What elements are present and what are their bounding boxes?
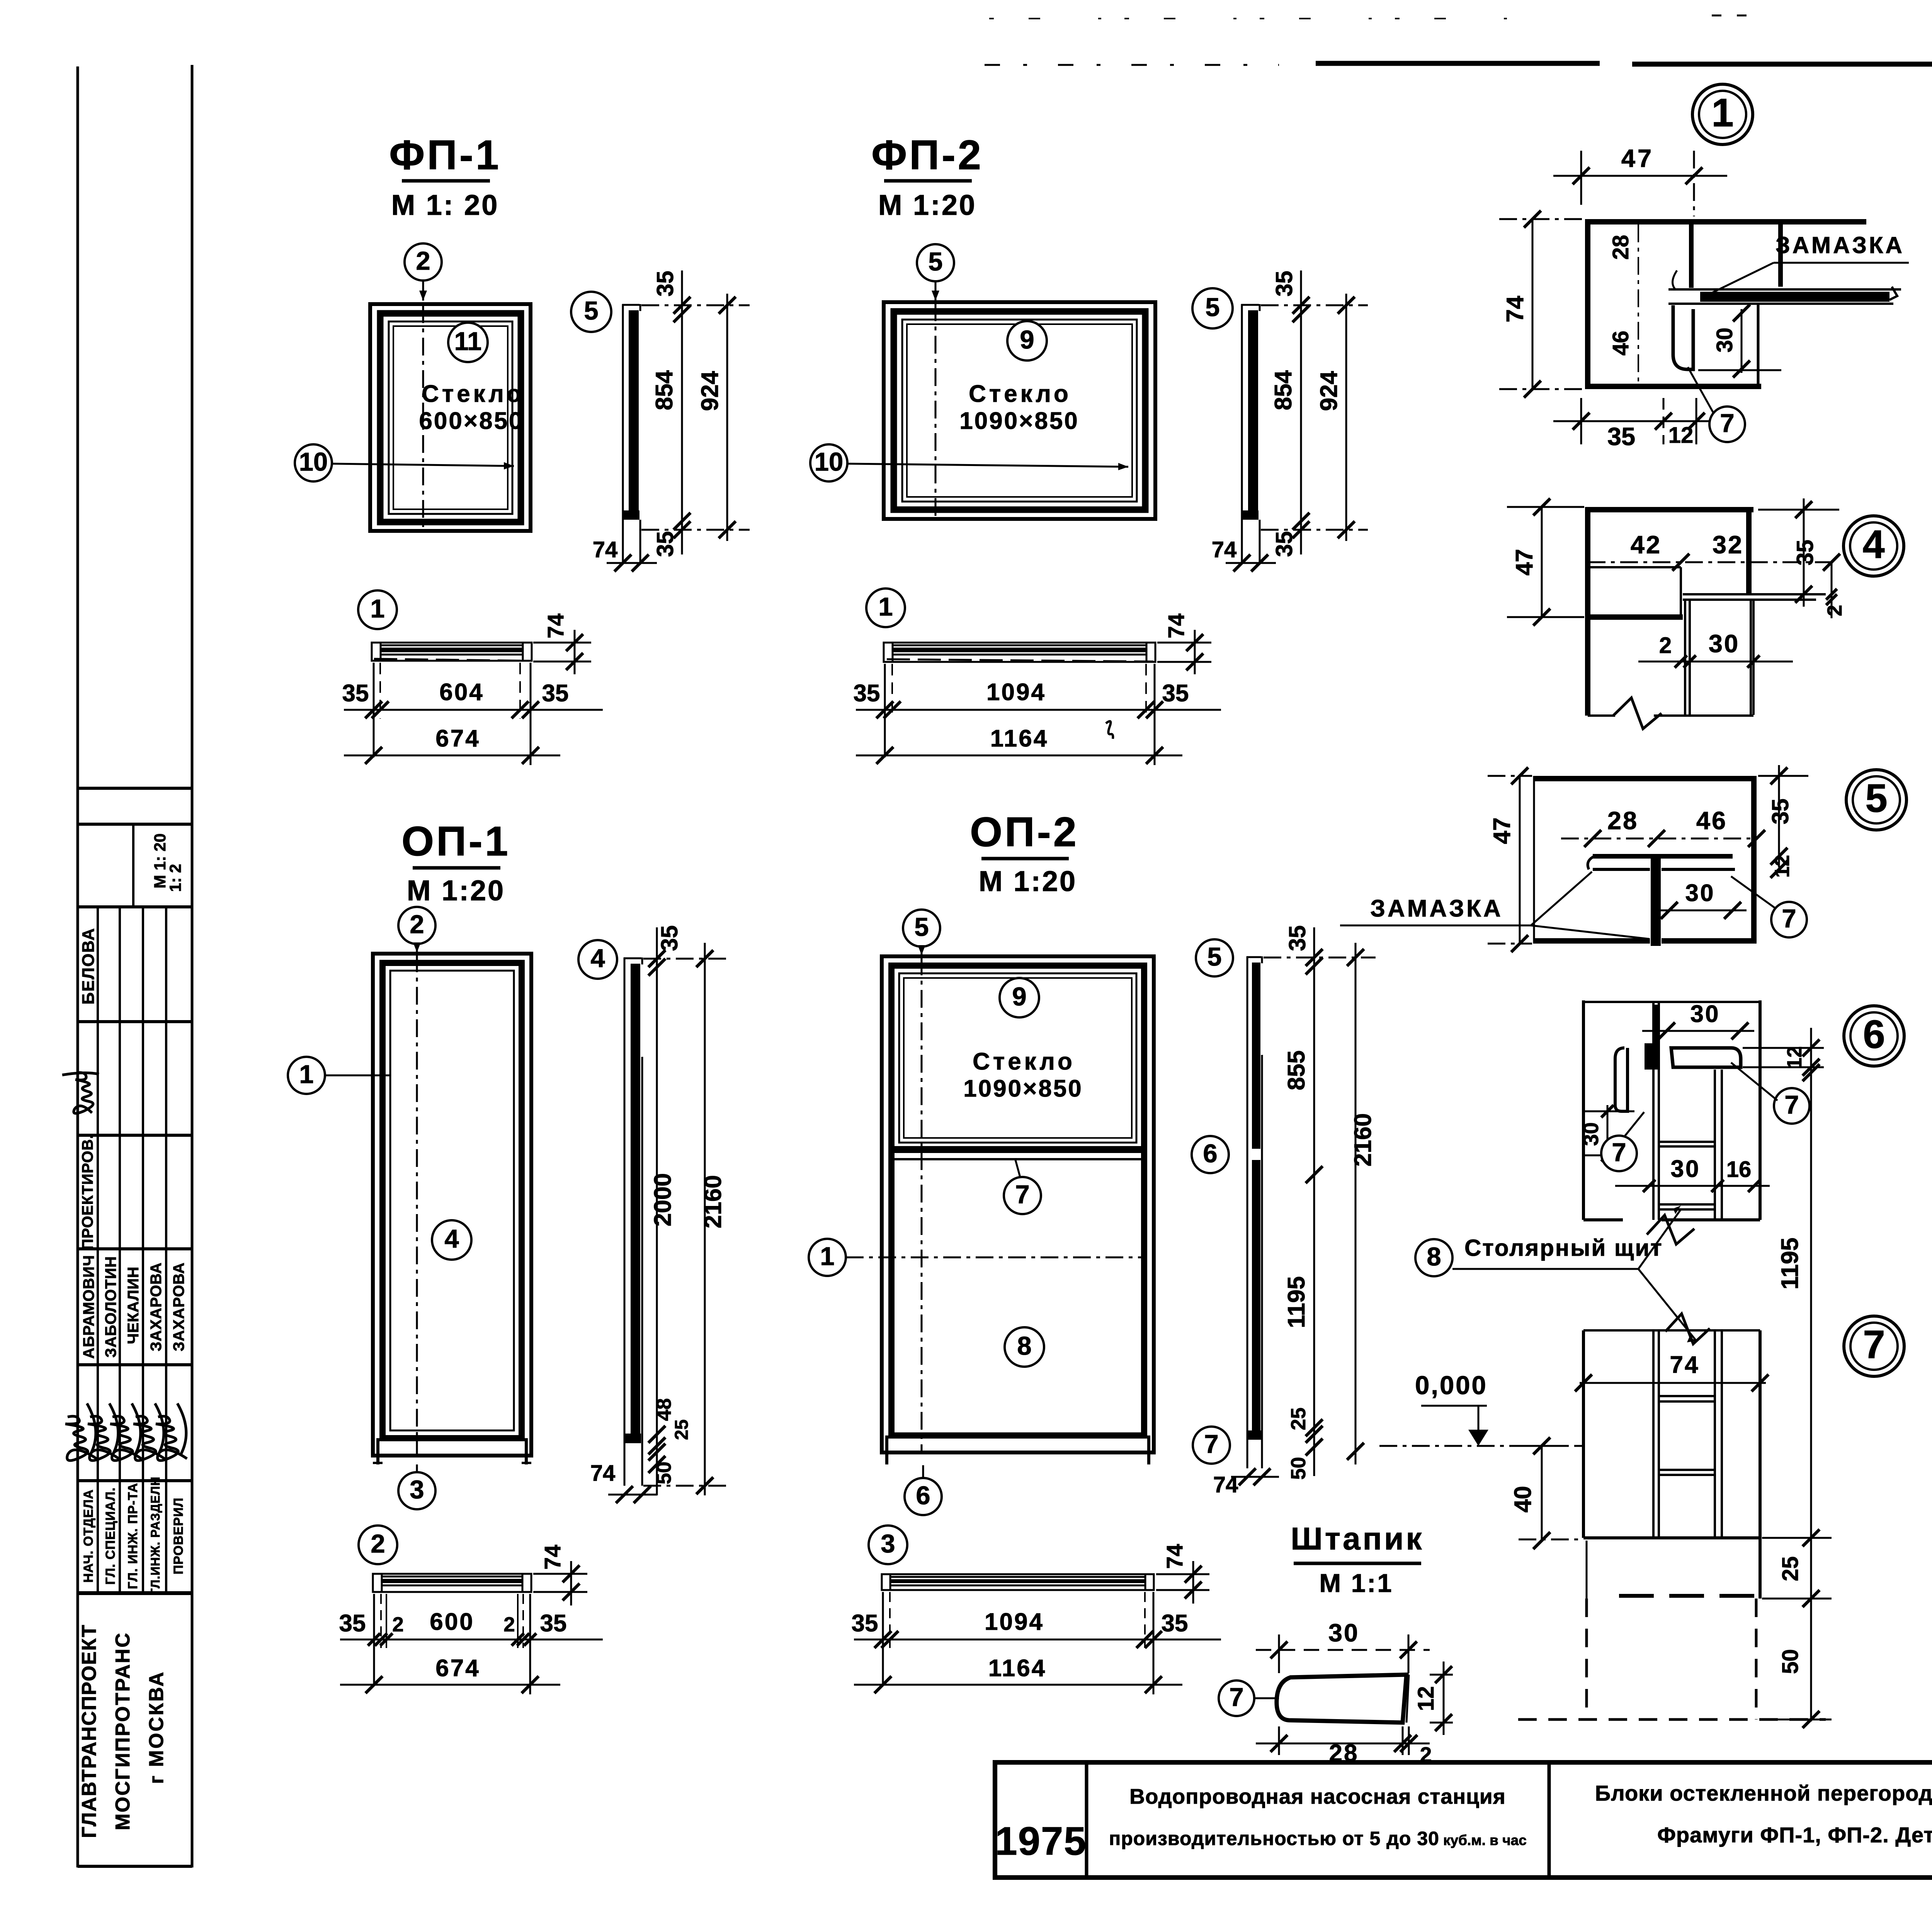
svg-text:1: 1 (820, 1242, 834, 1271)
OP-2 callout circle 6 bottom (905, 1478, 942, 1515)
FP-1 frame glass rebate rects (389, 321, 512, 514)
detail 5 dim 12 right (1770, 861, 1787, 878)
svg-text:9: 9 (1020, 325, 1034, 354)
svg-text:1195: 1195 (1777, 1238, 1803, 1290)
svg-text:1: 1 (878, 592, 893, 621)
stolyarny shchit leaders (1638, 1209, 1681, 1269)
sheet left border inner line (77, 66, 79, 1867)
svg-text:32: 32 (1713, 531, 1743, 559)
detail 6 break mark bottom (1647, 1215, 1694, 1244)
svg-text:6: 6 (1863, 1012, 1885, 1056)
svg-text:16: 16 (1726, 1157, 1752, 1182)
svg-text:1094: 1094 (985, 1609, 1044, 1635)
detail 6 dim 30 top (1642, 1030, 1754, 1032)
svg-text:74: 74 (1212, 537, 1237, 562)
OP-1 side dim 2160 (704, 943, 706, 1495)
svg-text:74: 74 (1502, 296, 1529, 322)
detail circle 4 (1844, 516, 1904, 576)
svg-text:ЗАБОЛОТИН: ЗАБОЛОТИН (102, 1256, 119, 1357)
svg-text:30: 30 (1690, 1001, 1720, 1027)
OP-1 plan bar (373, 1574, 531, 1592)
detail 5 dim 30 (1661, 910, 1747, 912)
detail 1 dim 35 12 bottom (1553, 420, 1719, 422)
svg-text:7: 7 (1863, 1322, 1885, 1367)
OP-1 side view strip (624, 957, 626, 1486)
svg-text:600×850: 600×850 (419, 408, 524, 434)
detail 6 crossbars (1659, 1141, 1715, 1143)
svg-text:74: 74 (540, 1545, 565, 1570)
svg-text:5: 5 (1205, 293, 1219, 322)
FP-1 plan dim 674 (344, 755, 560, 757)
OP-1 callout circle 2 top (398, 907, 435, 944)
svg-text:35: 35 (1792, 540, 1818, 566)
detail 1 glass bar (1668, 288, 1901, 291)
OP-1 frame sash rect (383, 963, 522, 1438)
OP-1 plan section circle 2 (359, 1526, 397, 1564)
OP-2 side circle 5 (1196, 939, 1233, 976)
detail 5 dim 28 46 (1561, 838, 1757, 840)
svg-text:854: 854 (651, 370, 678, 410)
svg-text:10: 10 (815, 447, 844, 476)
svg-text:28: 28 (1608, 235, 1633, 260)
detail 4 glass lines (1683, 593, 1826, 595)
svg-text:г МОСКВА: г МОСКВА (145, 1670, 168, 1784)
svg-text:4: 4 (590, 944, 605, 973)
svg-text:30: 30 (1328, 1619, 1359, 1647)
svg-text:8: 8 (1017, 1332, 1031, 1361)
svg-text:1164: 1164 (990, 725, 1049, 752)
svg-text:9: 9 (1012, 982, 1026, 1011)
detail 6 inner double verticals (1652, 1070, 1655, 1220)
svg-text:2000: 2000 (650, 1173, 676, 1226)
FP-1 plan section circle 1 (358, 590, 397, 629)
svg-text:25: 25 (672, 1419, 692, 1440)
stolyarny shchit label circle 8 (1415, 1239, 1452, 1276)
detail 6 dim 30 left (1607, 1105, 1609, 1159)
svg-text:5: 5 (928, 247, 942, 276)
svg-text:35: 35 (542, 680, 569, 707)
svg-text:ФП-2: ФП-2 (871, 131, 983, 178)
svg-text:Столярный щит: Столярный щит (1464, 1235, 1663, 1261)
OP-2 frame bottom feet (885, 1435, 888, 1464)
svg-text:1: 1 (299, 1060, 313, 1089)
svg-text:2160: 2160 (700, 1175, 726, 1228)
svg-text:30: 30 (1712, 328, 1737, 353)
stamp table horizontal lines (78, 787, 192, 790)
svg-text:ПРОВЕРИЛ: ПРОВЕРИЛ (171, 1497, 186, 1574)
svg-text:28: 28 (1607, 806, 1638, 835)
svg-text:74: 74 (590, 1461, 616, 1486)
FP-2 callout circle 10 left (810, 444, 847, 481)
detail 1 shtapik strip (1673, 305, 1693, 369)
svg-text:8: 8 (1427, 1242, 1441, 1271)
svg-text:1090×850: 1090×850 (963, 1075, 1083, 1102)
detail 5 shtapik strip hatched (1651, 859, 1661, 946)
svg-text:Штапик: Штапик (1291, 1521, 1424, 1556)
FP-1 callout circle 10 left (295, 444, 332, 481)
OP-2 glass rebate rects top panel (899, 973, 1136, 1143)
svg-text:7: 7 (1204, 1430, 1218, 1459)
svg-text:30: 30 (1579, 1122, 1603, 1146)
FP-1 plan bar (372, 643, 532, 661)
detail 1 dim 30 (1741, 309, 1743, 373)
svg-text:74: 74 (1670, 1352, 1700, 1378)
OP-1 door leaf circle 4 (432, 1220, 471, 1260)
svg-text:35: 35 (852, 1610, 878, 1637)
svg-text:5: 5 (914, 913, 929, 942)
svg-text:НАЧ. ОТДЕЛА: НАЧ. ОТДЕЛА (81, 1489, 96, 1583)
column dim 74 (1580, 1382, 1766, 1384)
svg-text:7: 7 (1612, 1138, 1626, 1167)
svg-text:ФП-1: ФП-1 (389, 131, 501, 178)
svg-text:25: 25 (1778, 1556, 1803, 1582)
OP-2 side dim 74 bottom (1231, 1476, 1279, 1478)
detail 6 shtapik right rounded (1671, 1048, 1741, 1067)
column section walls (1583, 1329, 1760, 1332)
detail 6 jamb walls (1582, 1000, 1585, 1220)
OP-1 vertical centerline (416, 954, 418, 1454)
svg-text:12: 12 (1668, 423, 1694, 448)
svg-text:4: 4 (444, 1225, 459, 1253)
svg-text:2160: 2160 (1350, 1113, 1376, 1167)
svg-text:2: 2 (503, 1613, 515, 1636)
svg-text:5: 5 (1207, 942, 1221, 971)
detail circle 1 (1692, 84, 1753, 145)
column crossbars (1659, 1395, 1715, 1397)
svg-text:3: 3 (881, 1529, 895, 1558)
FP-2 glass position circle 9 (1007, 321, 1047, 361)
svg-text:1090×850: 1090×850 (959, 408, 1079, 434)
svg-text:1094: 1094 (986, 679, 1046, 706)
svg-text:ГЛАВТРАНСПРОЕКТ: ГЛАВТРАНСПРОЕКТ (78, 1624, 100, 1838)
svg-text:7: 7 (1782, 904, 1796, 933)
svg-text:40: 40 (1510, 1486, 1536, 1513)
svg-text:42: 42 (1631, 531, 1662, 559)
column top break mark (1665, 1314, 1710, 1344)
svg-text:47: 47 (1621, 144, 1654, 172)
floor line (1583, 1536, 1760, 1539)
OP-2 panel circle 8 (1005, 1327, 1044, 1367)
detail 5 dim 35 right (1778, 765, 1780, 867)
detail 4 dim 2 right (1831, 562, 1833, 618)
svg-text:854: 854 (1270, 370, 1297, 410)
svg-text:35: 35 (540, 1610, 567, 1637)
detail 4 dim 47 left (1541, 507, 1543, 617)
svg-text:2: 2 (410, 910, 424, 939)
svg-text:М 1:20: М 1:20 (878, 189, 976, 221)
FP-2 plan section circle 1 (866, 588, 905, 627)
FP-2 plan bar (884, 643, 1155, 662)
shtapik dim 30 top (1256, 1649, 1430, 1651)
svg-text:674: 674 (435, 1655, 480, 1682)
OP-1 frame bottom feet (376, 1438, 379, 1464)
svg-text:35: 35 (1162, 680, 1189, 707)
OP-2 frame outer rect (882, 956, 1154, 1452)
FP-1 side dim 924 (726, 294, 728, 541)
detail 1 dim 47 (1553, 175, 1727, 177)
svg-text:Стекло: Стекло (969, 381, 1071, 407)
OP-2 plan bar (882, 1574, 1154, 1590)
svg-text:35: 35 (1271, 531, 1297, 557)
sheet top border broken line segment B (1316, 61, 1600, 66)
svg-text:35: 35 (652, 271, 678, 297)
OP-2 side dims 35 855 1195 25 50 (1313, 927, 1315, 1476)
FP-2 frame glass rebate rects (902, 320, 1137, 502)
svg-text:1: 1 (370, 594, 384, 623)
svg-text:Водопроводная насосная станц: Водопроводная насосная станция (1129, 1784, 1506, 1808)
svg-text:924: 924 (1316, 371, 1342, 411)
svg-text:ОП-1: ОП-1 (401, 818, 510, 864)
OP-1 plan dim 35 2 600 2 35 (340, 1639, 603, 1641)
svg-text:30: 30 (1685, 880, 1715, 906)
svg-text:12: 12 (1783, 1046, 1806, 1069)
OP-2 frame sash rect (891, 966, 1144, 1435)
svg-text:50: 50 (1287, 1457, 1310, 1480)
svg-text:1: 1 (1711, 90, 1733, 135)
FP-2 plan handwritten mark (1106, 721, 1113, 739)
svg-text:35: 35 (1162, 1610, 1188, 1637)
svg-text:2: 2 (392, 1613, 403, 1636)
sheet top border broken line segment A (985, 64, 1279, 66)
shtapik dim 12 right (1430, 1674, 1453, 1676)
svg-text:ПРОЕКТИРОВ.: ПРОЕКТИРОВ. (79, 1134, 96, 1250)
svg-text:ЧЕКАЛИН: ЧЕКАЛИН (125, 1266, 142, 1344)
svg-text:35: 35 (1271, 271, 1297, 297)
detail 6 hatched block (1645, 1043, 1660, 1070)
svg-text:Стекло: Стекло (422, 381, 524, 407)
svg-text:74: 74 (1164, 614, 1189, 639)
FP-2 plan dim 74 right (1157, 642, 1211, 644)
detail 6 glass top verticals (1652, 1002, 1655, 1043)
detail circle 5 (1846, 770, 1906, 830)
svg-text:2: 2 (371, 1529, 385, 1558)
shtapik dim 28 2 bottom (1256, 1743, 1430, 1745)
detail 4 lower verticals (1684, 600, 1686, 715)
svg-text:35: 35 (1284, 925, 1310, 951)
OP-1 plan dim 74 right (533, 1573, 587, 1575)
svg-text:ЗАХАРОВА: ЗАХАРОВА (170, 1262, 187, 1352)
svg-text:47: 47 (1511, 549, 1538, 576)
svg-text:7: 7 (1720, 409, 1734, 438)
OP-1 plan dim 674 (340, 1684, 560, 1686)
svg-text:М 1:1: М 1:1 (1319, 1569, 1393, 1598)
svg-text:ЗАМАЗКА: ЗАМАЗКА (1370, 895, 1503, 922)
stamp table column lines (97, 907, 99, 1593)
title block dividers (1085, 1762, 1088, 1878)
svg-text:6: 6 (916, 1481, 930, 1510)
svg-text:35: 35 (1607, 422, 1635, 451)
right dim line 1195 25 50 (1810, 1059, 1812, 1721)
detail 1 circle 7 (1709, 406, 1745, 442)
FP-1 callout circle 2 top (405, 243, 442, 281)
svg-text:Фрамуги ФП-1, ФП-2. Дета: Фрамуги ФП-1, ФП-2. Детали (1657, 1823, 1932, 1847)
svg-text:М 1: 20: М 1: 20 (391, 189, 499, 221)
svg-text:1975: 1975 (995, 1819, 1087, 1863)
svg-text:куб.м. в час: куб.м. в час (1443, 1832, 1527, 1848)
svg-text:7: 7 (1784, 1090, 1799, 1119)
OP-2 plan dim 1164 (854, 1684, 1182, 1686)
sheet left border stamp edge line (191, 65, 194, 1867)
svg-text:12: 12 (1771, 855, 1794, 878)
svg-text:ГЛ. ИНЖ. ПР-ТА: ГЛ. ИНЖ. ПР-ТА (126, 1483, 140, 1589)
OP-2 side circle 6 (1192, 1136, 1229, 1173)
svg-text:2: 2 (1823, 605, 1846, 616)
OP-2 glass position circle 9 (1000, 978, 1039, 1017)
svg-text:35: 35 (854, 680, 880, 707)
OP-2 plan dim 74 right (1156, 1573, 1209, 1575)
stamp signatures row (65, 1403, 97, 1461)
OP-2 callout circle 5 top (903, 910, 940, 947)
FP-1 side dim 35/854/35 (681, 270, 683, 554)
svg-text:30: 30 (1671, 1156, 1701, 1182)
svg-text:74: 74 (1162, 1544, 1187, 1569)
svg-text:50: 50 (1778, 1649, 1803, 1674)
svg-text:7: 7 (1229, 1683, 1243, 1712)
svg-text:12: 12 (1413, 1686, 1439, 1711)
FP-2 plan dim 35 1094 35 (856, 709, 1221, 711)
detail 4 dim 42 32 (1588, 561, 1832, 563)
detail 6 dim 30 16 bottom (1615, 1185, 1770, 1187)
OP-2 side circle 7 (1193, 1427, 1230, 1464)
svg-text:1: 2: 1: 2 (166, 864, 184, 892)
svg-text:2: 2 (416, 247, 430, 276)
svg-text:46: 46 (1696, 806, 1727, 835)
FP-2 frame sash rect (894, 311, 1145, 510)
OP-2 callout circle 1 left (809, 1239, 846, 1276)
svg-text:30: 30 (1709, 629, 1740, 658)
FP-1 plan dim 74 right (533, 642, 591, 644)
shtapik circle 7 (1219, 1680, 1254, 1716)
OP-1 frame inner rect (390, 971, 514, 1430)
svg-text:ГЛ. СПЕЦИАЛ.: ГЛ. СПЕЦИАЛ. (103, 1487, 118, 1585)
svg-text:48: 48 (653, 1398, 675, 1421)
detail 1 dim 74 left (1532, 219, 1534, 389)
svg-text:74: 74 (593, 537, 618, 562)
FP-1 side dim 74 bottom (607, 562, 657, 564)
OP-1 callout circle 1 left (288, 1057, 325, 1094)
OP-1 side dims 35 2000 48 25 50 (656, 927, 658, 1495)
dim 40 (1541, 1446, 1543, 1541)
sheet top border broken line segment C (1632, 62, 1932, 67)
FP-1 vertical centerline (422, 305, 424, 529)
svg-text:5: 5 (1865, 776, 1887, 820)
detail 5 stile section (1533, 776, 1535, 944)
OP-1 side view circle 4 (578, 940, 617, 979)
svg-text:855: 855 (1283, 1050, 1310, 1090)
detail 6 circle 7 left (1601, 1136, 1637, 1171)
OP-2 side view strip (1247, 956, 1248, 1468)
column inner double verticals (1652, 1330, 1655, 1538)
svg-text:924: 924 (697, 371, 723, 411)
detail 5 glass bar (1593, 854, 1733, 859)
svg-text:2: 2 (1659, 633, 1672, 658)
detail 5 circle 7 (1771, 902, 1807, 937)
svg-text:1164: 1164 (988, 1655, 1047, 1682)
FP-2 side dim 74 bottom (1226, 562, 1276, 564)
detail 4 break mark (1613, 698, 1662, 729)
svg-text:674: 674 (435, 725, 480, 752)
FP-1 glass position circle 11 (448, 323, 488, 362)
FP-2 vertical centerline (935, 303, 937, 517)
svg-text:5: 5 (584, 296, 598, 325)
svg-text:35: 35 (656, 925, 682, 951)
svg-text:Стекло: Стекло (973, 1048, 1075, 1075)
svg-text:МОСГИПРОТРАНС: МОСГИПРОТРАНС (112, 1632, 134, 1830)
level dashdot line (1379, 1445, 1583, 1447)
detail circle 7 (1844, 1316, 1904, 1376)
OP-1 frame outer rect (373, 954, 531, 1456)
FP-1 frame sash rect (380, 313, 521, 522)
OP-1 callout circle 3 bottom (398, 1472, 435, 1509)
svg-text:ОП-2: ОП-2 (970, 808, 1079, 855)
svg-text:ЗАХАРОВА: ЗАХАРОВА (148, 1262, 165, 1352)
svg-text:М 1:20: М 1:20 (407, 874, 505, 906)
svg-text:М 1:20: М 1:20 (979, 865, 1077, 897)
OP-2 vertical centerline (921, 957, 923, 1451)
OP-2 plan section circle 3 (869, 1526, 907, 1564)
svg-text:БЕЛОВА: БЕЛОВА (79, 927, 98, 1004)
svg-text:46: 46 (1608, 331, 1633, 356)
detail 4 dim 35 right (1803, 498, 1805, 607)
svg-text:1195: 1195 (1283, 1276, 1310, 1328)
FP-2 plan dim 1164 (856, 755, 1182, 757)
svg-text:35: 35 (652, 531, 678, 557)
svg-text:0,000: 0,000 (1415, 1371, 1488, 1400)
svg-text:6: 6 (1203, 1139, 1217, 1168)
detail circle 6 (1844, 1006, 1904, 1066)
detail 6 circle 7 right (1774, 1088, 1810, 1124)
detail 4 dim 2 30 bottom (1638, 661, 1793, 663)
detail 1 stile section (1585, 219, 1590, 389)
svg-text:35: 35 (1767, 799, 1793, 825)
svg-text:ГЛ.ИНЖ. РАЗДЕЛН: ГЛ.ИНЖ. РАЗДЕЛН (148, 1476, 162, 1595)
svg-text:74: 74 (1213, 1472, 1238, 1497)
FP-1 side view circle 5 (571, 292, 611, 332)
svg-text:Блоки остекленной перегородк: Блоки остекленной перегородки ОП-1 , ОП-… (1595, 1781, 1932, 1805)
svg-text:600: 600 (430, 1609, 474, 1635)
svg-text:604: 604 (439, 679, 484, 706)
svg-text:10: 10 (299, 447, 328, 476)
svg-text:4: 4 (1862, 522, 1884, 566)
svg-text:74: 74 (543, 614, 568, 639)
svg-text:47: 47 (1489, 818, 1515, 844)
OP-2 middle rail (891, 1146, 1144, 1153)
svg-text:25: 25 (1287, 1408, 1310, 1430)
FP-2 callout circle 5 top (917, 244, 954, 281)
svg-text:АБРАМОВИЧ: АБРАМОВИЧ (80, 1255, 97, 1359)
plinth band 25 (1759, 1538, 1762, 1599)
detail 1 sill edge (1757, 304, 1760, 386)
FP-1 frame outer rect (370, 304, 531, 531)
svg-text:11: 11 (454, 327, 482, 356)
svg-text:35: 35 (339, 1610, 366, 1637)
svg-text:производительностью от 5 до: производительностью от 5 до 30 (1109, 1828, 1439, 1849)
detail 4 rail section (1585, 507, 1753, 512)
scan noise specks top margin (989, 18, 1526, 19)
detail 5 dim 47 left (1519, 776, 1521, 944)
svg-text:3: 3 (410, 1475, 424, 1504)
foundation dashed (1585, 1599, 1588, 1719)
FP-1 plan dim 35 604 35 (344, 709, 603, 711)
shtapik profile (1277, 1675, 1406, 1723)
svg-text:35: 35 (342, 680, 369, 707)
detail 6 shtapik left J (1615, 1048, 1628, 1111)
FP-2 side dim 35/854/35 (1300, 270, 1302, 554)
svg-text:7: 7 (1015, 1180, 1029, 1209)
svg-text:ЗАМАЗКА: ЗАМАЗКА (1776, 232, 1905, 258)
FP-1 side view strip (622, 304, 624, 531)
FP-2 side dim 924 (1345, 294, 1347, 541)
